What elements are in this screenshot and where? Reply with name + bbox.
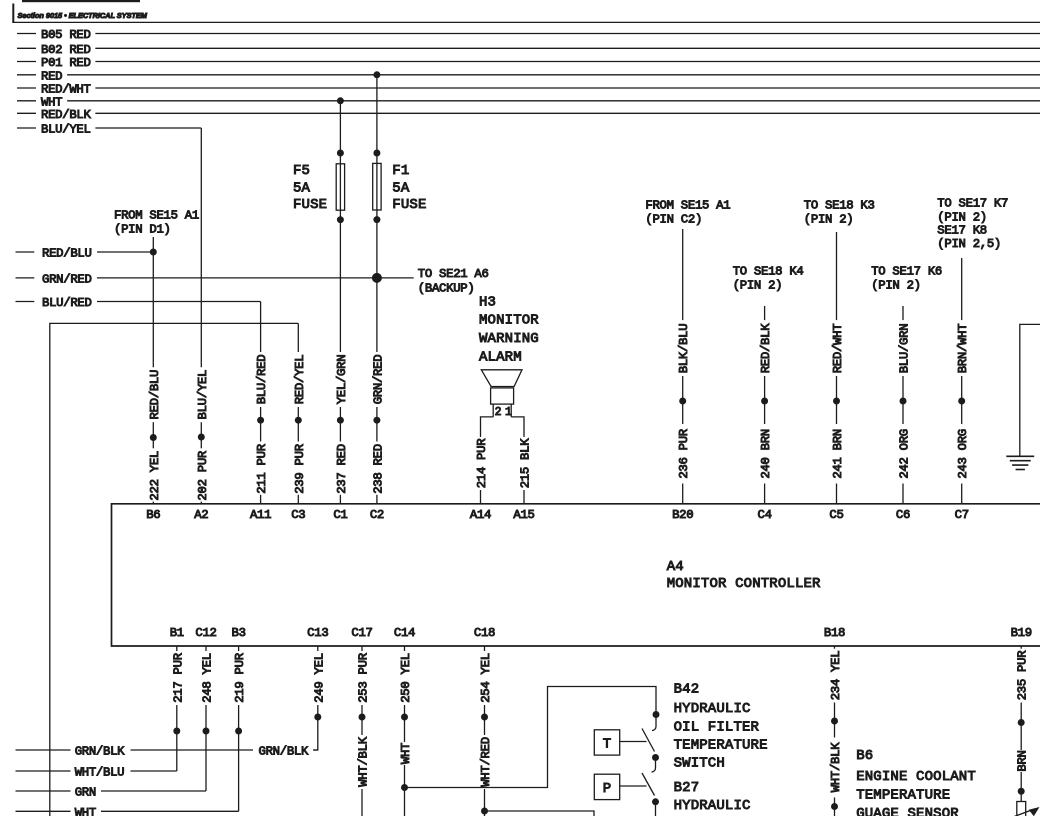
wire 243 ORG / BRN/WHT to pin C7 — [956, 258, 970, 504]
svg-text:Section 9015 • ELECTRICAL SYST: Section 9015 • ELECTRICAL SYSTEM — [18, 11, 148, 20]
svg-text:C3: C3 — [291, 508, 305, 522]
bus wire BLU/YEL — [17, 123, 201, 137]
svg-text:C18: C18 — [474, 626, 495, 640]
pin C14 — [394, 626, 415, 640]
pin C6 — [896, 508, 910, 522]
svg-text:B3: B3 — [232, 626, 246, 640]
pin B19 — [1011, 626, 1032, 640]
bus wire P01 RED — [17, 56, 1040, 70]
wire 235 PUR / BRN from pin B19 — [1016, 646, 1030, 802]
svg-text:RED/BLK: RED/BLK — [759, 323, 773, 373]
svg-text:BLU/GRN: BLU/GRN — [898, 324, 912, 374]
ground — [1006, 456, 1034, 469]
svg-text:P: P — [603, 781, 612, 797]
wire GRN/RED row — [16, 272, 414, 286]
svg-text:250 YEL: 250 YEL — [399, 653, 413, 703]
svg-text:FROM SE15 A1: FROM SE15 A1 — [645, 199, 730, 213]
bus wire B05 RED — [17, 28, 1040, 42]
pin A14 — [470, 508, 491, 522]
svg-text:BLU/YEL: BLU/YEL — [41, 123, 91, 137]
switch B42 top terminal — [653, 711, 660, 718]
svg-text:C17: C17 — [351, 626, 372, 640]
wire GRN row — [16, 786, 207, 800]
svg-text:B18: B18 — [824, 626, 845, 640]
label TO SE21 A6 (BACKUP) — [418, 267, 489, 295]
P actuator lead — [620, 785, 647, 787]
svg-text:238 RED: 238 RED — [371, 444, 385, 494]
svg-text:C7: C7 — [955, 508, 969, 522]
fuse F1 — [373, 163, 381, 210]
svg-text:HYDRAULIC: HYDRAULIC — [674, 701, 751, 717]
wire 236 PUR / BLK/BLU to pin B20 — [677, 229, 691, 504]
svg-text:F5: F5 — [293, 163, 310, 179]
sensor B6 body — [1017, 802, 1026, 816]
svg-text:C13: C13 — [307, 626, 328, 640]
svg-text:WHT: WHT — [75, 806, 96, 816]
wire 222 YEL / RED/BLU to pin B6 — [148, 237, 162, 504]
svg-text:254 YEL: 254 YEL — [479, 653, 493, 703]
svg-text:MONITOR: MONITOR — [479, 313, 539, 329]
svg-text:235 PUR: 235 PUR — [1016, 650, 1030, 700]
svg-text:H3: H3 — [479, 295, 496, 311]
wire 219 PUR from pin B3 — [233, 646, 247, 811]
label TO SE17 K7 K8 — [937, 197, 1008, 252]
fuse F5 — [336, 164, 344, 210]
svg-text:(BACKUP): (BACKUP) — [418, 281, 475, 295]
switch B27 blade — [642, 773, 655, 796]
svg-text:253 PUR: 253 PUR — [357, 652, 371, 702]
pin A11 — [250, 508, 271, 522]
switch B27 bottom terminal — [652, 798, 659, 805]
switch B42 blade — [642, 729, 655, 752]
svg-text:(PIN 2): (PIN 2) — [733, 279, 783, 293]
svg-text:WHT/BLK: WHT/BLK — [357, 736, 371, 786]
svg-text:243 ORG: 243 ORG — [956, 429, 970, 479]
node junction RED/BLU x B6 — [150, 249, 157, 256]
wire 248 YEL from pin C12 — [201, 646, 215, 791]
pin C13 — [307, 626, 328, 640]
label FROM SE15 A1 (PIN C2) — [645, 199, 730, 227]
svg-text:248 YEL: 248 YEL — [201, 653, 215, 703]
svg-text:240 BRN: 240 BRN — [759, 429, 773, 479]
svg-text:249 YEL: 249 YEL — [312, 653, 326, 703]
wire 211 PUR / BLU/RED to pin A11 — [255, 302, 269, 505]
svg-text:WARNING: WARNING — [479, 331, 539, 347]
pin B20 — [672, 508, 693, 522]
svg-text:C1: C1 — [333, 508, 347, 522]
svg-text:C12: C12 — [195, 626, 216, 640]
T actuator lead — [620, 741, 647, 743]
wire 239 PUR / RED/YEL to pin C3 — [293, 323, 307, 504]
svg-text:C5: C5 — [829, 508, 843, 522]
pin A15 — [513, 508, 534, 522]
svg-text:TEMPERATURE: TEMPERATURE — [856, 788, 950, 804]
svg-text:TO SE21 A6: TO SE21 A6 — [418, 267, 489, 281]
wire BLU/RED row — [16, 296, 261, 310]
svg-text:SE17 K8: SE17 K8 — [937, 224, 987, 238]
wire below B27 — [655, 805, 657, 816]
bus wire RED/BLK — [17, 108, 1040, 122]
wire between switches — [652, 761, 656, 772]
pin C4 — [758, 508, 772, 522]
svg-text:TO SE17 K6: TO SE17 K6 — [871, 265, 942, 279]
svg-text:B42: B42 — [674, 682, 700, 698]
bus wire RED/WHT — [17, 83, 1040, 97]
node F5 top — [337, 150, 344, 157]
wire 250 YEL / WHT from pin C14 — [399, 646, 413, 816]
pin B1 — [170, 626, 184, 640]
alarm H3 speaker horn — [481, 370, 522, 387]
svg-text:ENGINE COOLANT: ENGINE COOLANT — [856, 769, 976, 785]
svg-text:BLU/RED: BLU/RED — [255, 355, 269, 405]
pin B6 — [146, 508, 160, 522]
temperature actuator T box — [594, 730, 619, 755]
svg-text:RED/BLK: RED/BLK — [41, 108, 91, 122]
svg-text:F1: F1 — [392, 163, 409, 179]
fuse F1 label — [392, 163, 426, 213]
svg-text:OIL FILTER: OIL FILTER — [674, 720, 760, 736]
svg-text:(PIN C2): (PIN C2) — [645, 213, 702, 227]
svg-text:GUAGE SENSOR: GUAGE SENSOR — [856, 806, 959, 816]
svg-text:ALARM: ALARM — [479, 349, 522, 365]
svg-text:217 PUR: 217 PUR — [171, 652, 185, 702]
svg-text:(PIN 2): (PIN 2) — [871, 279, 921, 293]
svg-text:(PIN 2): (PIN 2) — [804, 213, 854, 227]
svg-text:B6: B6 — [146, 508, 160, 522]
svg-text:A15: A15 — [513, 508, 534, 522]
svg-text:WHT/BLK: WHT/BLK — [829, 742, 843, 792]
svg-text:A2: A2 — [194, 508, 208, 522]
wire 238 RED / GRN/RED to pin C2 — [371, 75, 385, 504]
switch B42 bottom terminal — [652, 754, 659, 761]
label B42 switch — [674, 682, 768, 772]
wire WHT/BLU row — [16, 766, 177, 780]
svg-text:TO SE17 K7: TO SE17 K7 — [937, 197, 1008, 211]
wire C14 branch to B42 switch — [405, 687, 657, 788]
svg-text:WHT/RED: WHT/RED — [479, 737, 493, 787]
pin B18 — [824, 626, 845, 640]
svg-text:YEL/GRN: YEL/GRN — [335, 355, 349, 405]
svg-text:B19: B19 — [1011, 626, 1032, 640]
svg-text:RED: RED — [41, 69, 62, 83]
bus wire RED — [17, 69, 1040, 83]
svg-text:219 PUR: 219 PUR — [233, 652, 247, 702]
svg-text:1: 1 — [505, 406, 512, 419]
wire 215 BLK to pin A15 — [511, 417, 532, 504]
sensor B6 arrow — [1013, 807, 1040, 816]
svg-text:B20: B20 — [672, 508, 693, 522]
svg-text:B27: B27 — [674, 780, 700, 796]
wire 249 YEL from pin C13 — [312, 646, 326, 750]
svg-text:A11: A11 — [250, 508, 271, 522]
svg-text:C6: C6 — [896, 508, 910, 522]
label B27 switch — [674, 780, 751, 814]
svg-text:HYDRAULIC: HYDRAULIC — [674, 798, 751, 814]
controller A4 box — [112, 504, 1040, 646]
svg-text:202 PUR: 202 PUR — [196, 450, 210, 500]
svg-text:215 BLK: 215 BLK — [519, 438, 533, 488]
svg-text:5A: 5A — [392, 180, 410, 196]
svg-text:FUSE: FUSE — [293, 197, 327, 213]
wire RED/BLU row — [16, 247, 154, 261]
alarm H3 speaker body — [491, 388, 514, 404]
svg-text:RED/YEL: RED/YEL — [293, 355, 307, 405]
node junction GRN/RED x C2 wire — [372, 273, 382, 283]
node F1 tap on RED bus — [373, 71, 380, 78]
svg-text:(PIN 2,5): (PIN 2,5) — [937, 237, 1001, 251]
svg-text:234 YEL: 234 YEL — [829, 651, 843, 701]
label TO SE17 K6 (PIN 2) — [871, 265, 942, 293]
svg-text:B1: B1 — [170, 626, 184, 640]
node F1 bottom — [373, 216, 380, 223]
wire C18 branch down — [485, 811, 595, 816]
svg-text:RED/BLU: RED/BLU — [148, 370, 162, 420]
svg-text:BLU/RED: BLU/RED — [42, 296, 92, 310]
svg-text:A14: A14 — [470, 508, 491, 522]
svg-text:222 YEL: 222 YEL — [148, 451, 162, 501]
svg-text:A4: A4 — [667, 559, 684, 575]
pin C1 — [333, 508, 347, 522]
pin 2 lead of H3 — [492, 404, 494, 417]
svg-text:GRN/BLK: GRN/BLK — [259, 745, 309, 759]
pin 1 lead of H3 — [510, 404, 512, 417]
pin C2 — [370, 508, 384, 522]
svg-text:214 PUR: 214 PUR — [475, 438, 489, 488]
wire 214 PUR to pin A14 — [475, 417, 493, 504]
wire 237 RED / YEL/GRN to pin C1 — [335, 101, 349, 504]
wire 253 PUR / WHT/BLK from pin C17 — [357, 646, 371, 816]
svg-text:(PIN 2): (PIN 2) — [937, 210, 987, 224]
svg-text:GRN/RED: GRN/RED — [371, 355, 385, 405]
svg-text:239 PUR: 239 PUR — [293, 443, 307, 493]
svg-text:C14: C14 — [394, 626, 415, 640]
svg-text:WHT/BLU: WHT/BLU — [75, 766, 125, 780]
svg-text:BLK/BLU: BLK/BLU — [677, 324, 691, 374]
node F1 top — [373, 150, 380, 157]
wire 241 BRN / RED/WHT to pin C5 — [831, 232, 845, 504]
pin C7 — [955, 508, 969, 522]
wire 242 ORG / BLU/GRN to pin C6 — [898, 306, 912, 504]
svg-text:RED/WHT: RED/WHT — [831, 324, 845, 374]
pin C12 — [195, 626, 216, 640]
wire 240 BRN / RED/BLK to pin C4 — [759, 306, 773, 504]
svg-text:RED/BLU: RED/BLU — [42, 247, 92, 261]
wire to ground — [1020, 324, 1040, 456]
label H3 MONITOR WARNING ALARM — [479, 295, 539, 366]
fuse F5 label — [293, 163, 327, 213]
wire C3 feeder elbow — [50, 323, 298, 816]
bus wire B02 RED — [17, 43, 1040, 57]
pressure actuator P box — [594, 774, 619, 799]
svg-text:FUSE: FUSE — [392, 197, 426, 213]
svg-text:GRN/BLK: GRN/BLK — [75, 745, 125, 759]
node F5 bottom — [337, 216, 344, 223]
svg-text:B02 RED: B02 RED — [41, 43, 91, 57]
switch B42 fixed contact hook — [652, 718, 656, 731]
wire 202 PUR / BLU/YEL to pin A2 — [196, 128, 210, 504]
svg-text:TO SE18 K4: TO SE18 K4 — [733, 265, 804, 279]
svg-text:211 PUR: 211 PUR — [255, 443, 269, 493]
wire WHT row — [16, 806, 239, 816]
svg-text:BRN: BRN — [1016, 750, 1030, 771]
wire GRN/BLK row — [16, 745, 318, 759]
svg-text:T: T — [603, 736, 612, 752]
svg-text:237 RED: 237 RED — [335, 444, 349, 494]
svg-text:BRN/WHT: BRN/WHT — [956, 324, 970, 374]
label FROM SE15 A1 (PIN D1) — [114, 208, 199, 236]
wire 254 YEL / WHT/RED from pin C18 — [479, 646, 493, 816]
svg-text:P01 RED: P01 RED — [41, 56, 91, 70]
svg-text:236 PUR: 236 PUR — [677, 428, 691, 478]
pin number 2 — [495, 406, 502, 419]
svg-text:FROM SE15 A1: FROM SE15 A1 — [114, 208, 199, 222]
svg-text:242 ORG: 242 ORG — [898, 429, 912, 479]
pin C3 — [291, 508, 305, 522]
svg-text:MONITOR CONTROLLER: MONITOR CONTROLLER — [667, 576, 821, 592]
pin number 1 — [505, 406, 512, 419]
svg-text:BLU/YEL: BLU/YEL — [196, 370, 210, 420]
pin C18 — [474, 626, 495, 640]
label TO SE18 K4 (PIN 2) — [733, 265, 804, 293]
svg-text:5A: 5A — [293, 180, 311, 196]
svg-text:B6: B6 — [856, 748, 873, 764]
svg-text:C2: C2 — [370, 508, 384, 522]
svg-text:TEMPERATURE: TEMPERATURE — [674, 738, 768, 754]
label A4 MONITOR CONTROLLER — [667, 559, 821, 592]
svg-text:WHT: WHT — [399, 743, 413, 764]
svg-text:GRN: GRN — [75, 786, 96, 800]
pin C17 — [351, 626, 372, 640]
svg-text:SWITCH: SWITCH — [674, 756, 725, 772]
svg-text:(PIN D1): (PIN D1) — [114, 222, 171, 236]
label TO SE18 K3 (PIN 2) — [804, 199, 875, 227]
pin B3 — [232, 626, 246, 640]
svg-text:2: 2 — [495, 406, 502, 419]
node F5 tap on WHT bus — [337, 97, 344, 104]
svg-text:GRN/RED: GRN/RED — [42, 272, 92, 286]
pin C5 — [829, 508, 843, 522]
label B6 sensor — [856, 748, 976, 816]
svg-text:241 BRN: 241 BRN — [831, 429, 845, 479]
bus wire WHT — [17, 95, 1040, 109]
svg-text:B05 RED: B05 RED — [41, 28, 91, 42]
header bar — [12, 0, 1040, 22]
pin A2 — [194, 508, 208, 522]
wire 217 PUR from pin B1 — [171, 646, 185, 771]
svg-text:C4: C4 — [758, 508, 772, 522]
wire 234 YEL / WHT/BLK from pin B18 — [829, 646, 843, 816]
svg-text:TO SE18 K3: TO SE18 K3 — [804, 199, 875, 213]
